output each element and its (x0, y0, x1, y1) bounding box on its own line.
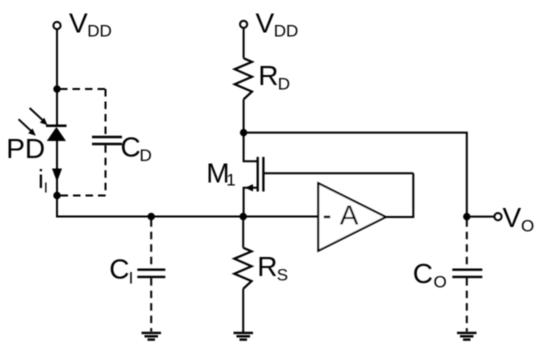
svg-text:V: V (256, 7, 275, 38)
capacitor CO dashed lead (top) (466, 219, 468, 268)
wire node to diode bar (56, 89, 58, 126)
capacitor CI upper plate (137, 269, 165, 271)
ground (RS) (234, 333, 254, 340)
svg-text:DD: DD (87, 21, 112, 40)
svg-text:O: O (521, 216, 534, 235)
op-amp A triangle (318, 183, 385, 251)
capacitor CI lower plate (137, 276, 165, 278)
capacitor CD dashed branch: bottom wire (60, 195, 106, 197)
capacitor CD dashed branch: top wire (60, 88, 106, 90)
capacitor CD lower plate (92, 143, 122, 145)
wire VDD to PD cathode node (56, 29, 58, 89)
node: CI connection (148, 213, 155, 220)
transistor M1 gate bar (262, 157, 264, 192)
capacitor CD dashed branch: lower vertical (105, 145, 107, 195)
resistor RD zigzag (235, 58, 252, 99)
transistor M1 source lead with arrow (244, 188, 257, 217)
resistor RS zigzag (234, 248, 251, 289)
svg-text:D: D (278, 74, 290, 93)
wire source node to RS (242, 217, 244, 248)
svg-text:V: V (69, 7, 88, 38)
svg-text:I: I (44, 179, 48, 196)
svg-text:PD: PD (6, 133, 45, 164)
ground (CI, dashed branch) (142, 333, 162, 340)
capacitor CO lower plate (452, 276, 482, 278)
transistor M1 source arrowhead (245, 184, 253, 191)
node: drain / output takeoff (240, 129, 247, 136)
ground (CO, dashed branch) (457, 333, 477, 340)
wire PD anode down to bottom node (56, 141, 58, 196)
wire RS to ground (242, 289, 244, 333)
photodiode PD cathode bar (46, 125, 67, 128)
wire drain node to output (top rail) (244, 133, 467, 217)
svg-text:C: C (109, 253, 129, 284)
wire RD to drain node (243, 99, 245, 132)
svg-text:D: D (140, 146, 152, 165)
node: PD cathode / CD top junction (53, 85, 60, 92)
capacitor CO dashed lead (bottom) (466, 278, 468, 331)
svg-text:A: A (340, 200, 359, 231)
photodiode PD triangle (anode, pointing up) (47, 127, 66, 141)
transistor M1 drain lead (244, 133, 257, 162)
light arrow 2 (19, 119, 36, 136)
capacitor CO upper plate (452, 269, 482, 271)
svg-text:1: 1 (226, 171, 235, 190)
svg-text:O: O (434, 272, 447, 291)
svg-text:R: R (258, 60, 278, 91)
node: VO output (463, 213, 470, 220)
capacitor CI dashed lead (bottom) (150, 278, 152, 331)
wire VDD to RD (243, 28, 245, 58)
VDD terminal (middle, RD branch) (240, 21, 247, 28)
wire amp output (386, 173, 414, 217)
svg-text:I: I (129, 268, 134, 287)
svg-text:DD: DD (274, 21, 299, 40)
capacitor CI dashed lead (top) (150, 219, 152, 268)
wire VO node to terminal (467, 216, 495, 218)
svg-text:C: C (413, 258, 433, 289)
transistor M1 channel bar (257, 157, 259, 192)
node: source / RS connection (240, 213, 247, 220)
light arrow 1 (30, 108, 48, 125)
VDD terminal (left, photodiode branch) (53, 22, 60, 29)
svg-text:S: S (277, 265, 288, 284)
svg-text:V: V (503, 202, 522, 233)
svg-text:R: R (257, 251, 277, 282)
label minus (amp input) (324, 216, 330, 219)
wire PD bottom node to main rail (56, 196, 58, 217)
wire M1 gate to feedback (265, 172, 414, 174)
node: PD anode / CD bottom junction (53, 192, 60, 199)
svg-text:C: C (121, 131, 141, 162)
capacitor CD upper plate (92, 136, 122, 138)
current arrow iI (arrowhead on wire, pointing down) (52, 169, 62, 183)
capacitor CD dashed branch: upper vertical (105, 89, 107, 136)
VO terminal circle (494, 213, 501, 220)
main horizontal wire (input rail to amp input) (56, 216, 319, 218)
